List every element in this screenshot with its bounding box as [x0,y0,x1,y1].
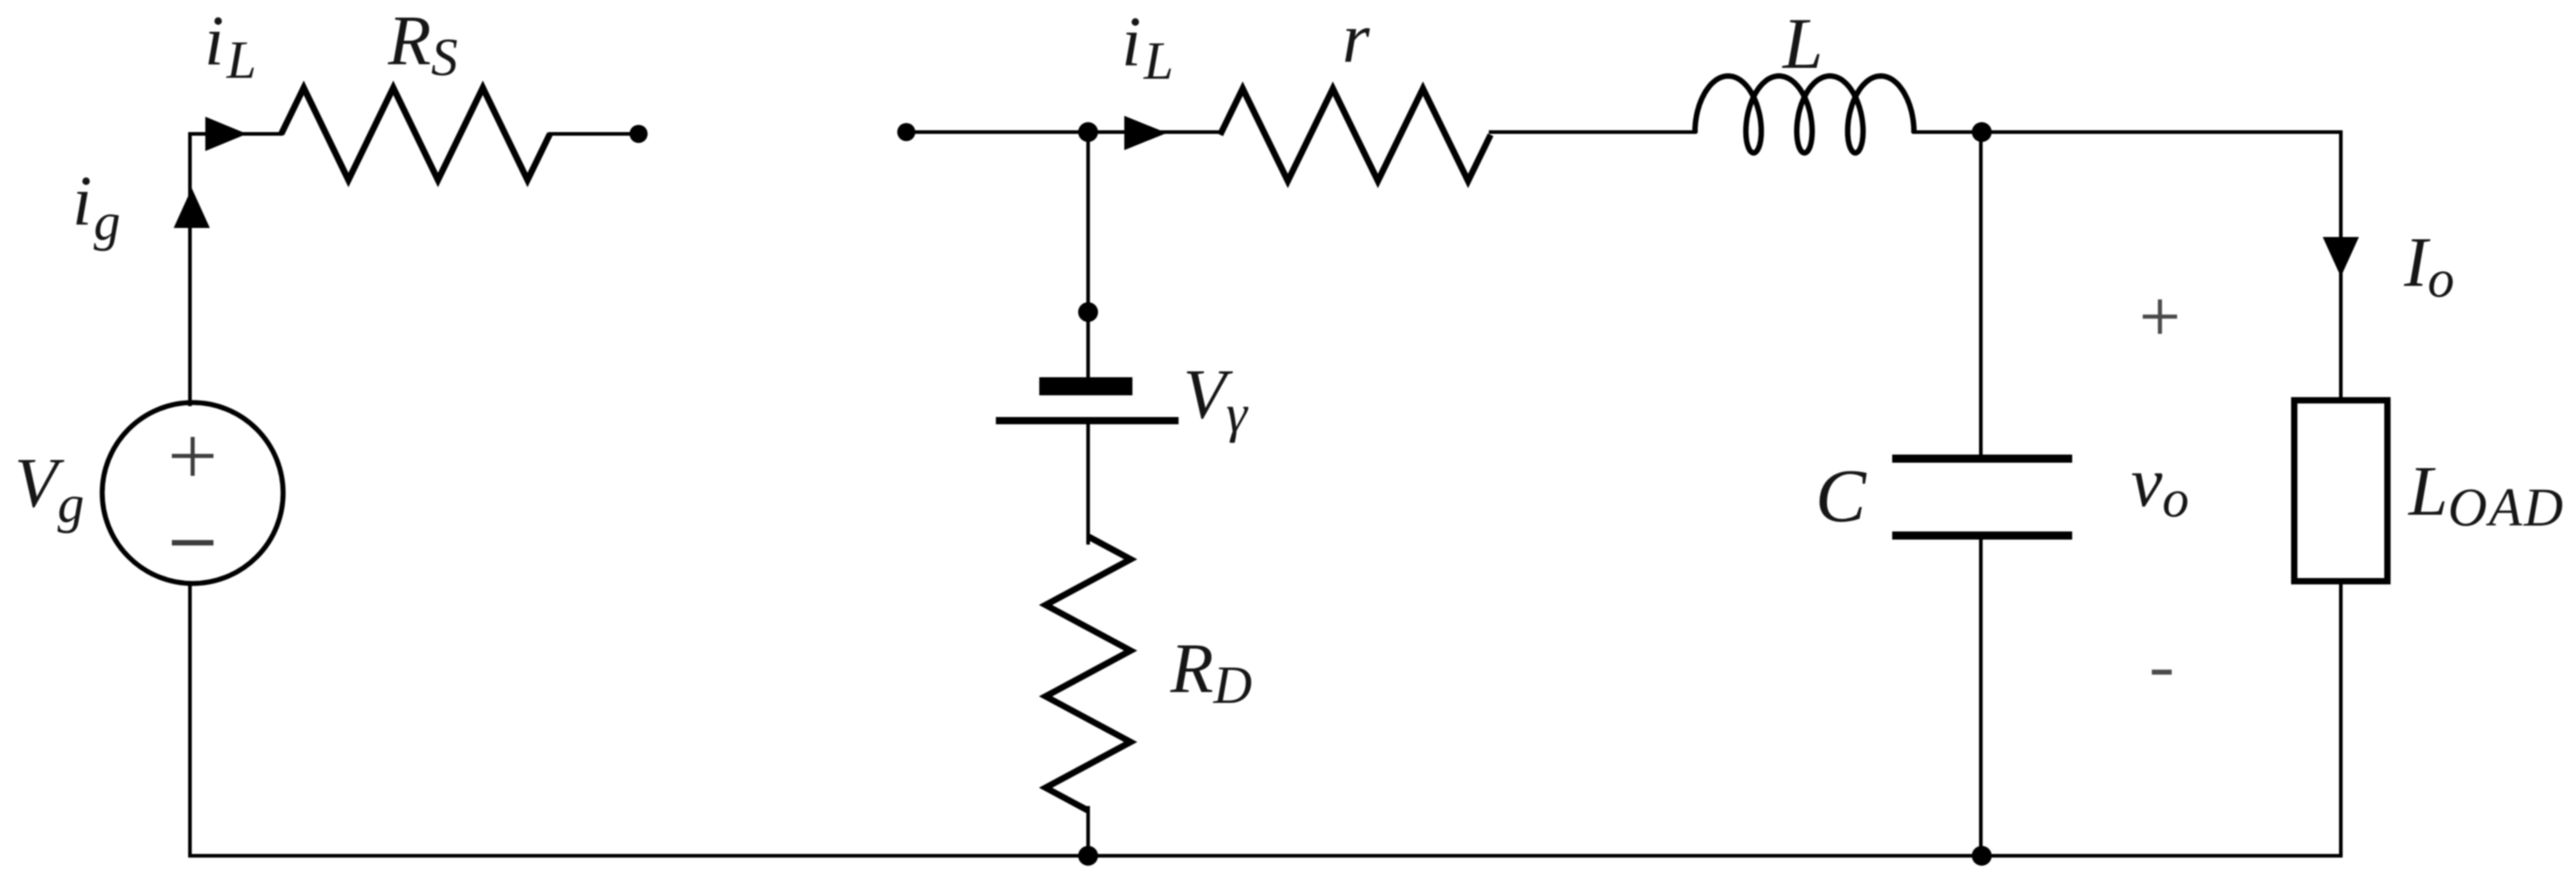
svg-text:C: C [1815,454,1867,538]
svg-text:r: r [1342,0,1370,77]
svg-text:L: L [1782,5,1823,84]
